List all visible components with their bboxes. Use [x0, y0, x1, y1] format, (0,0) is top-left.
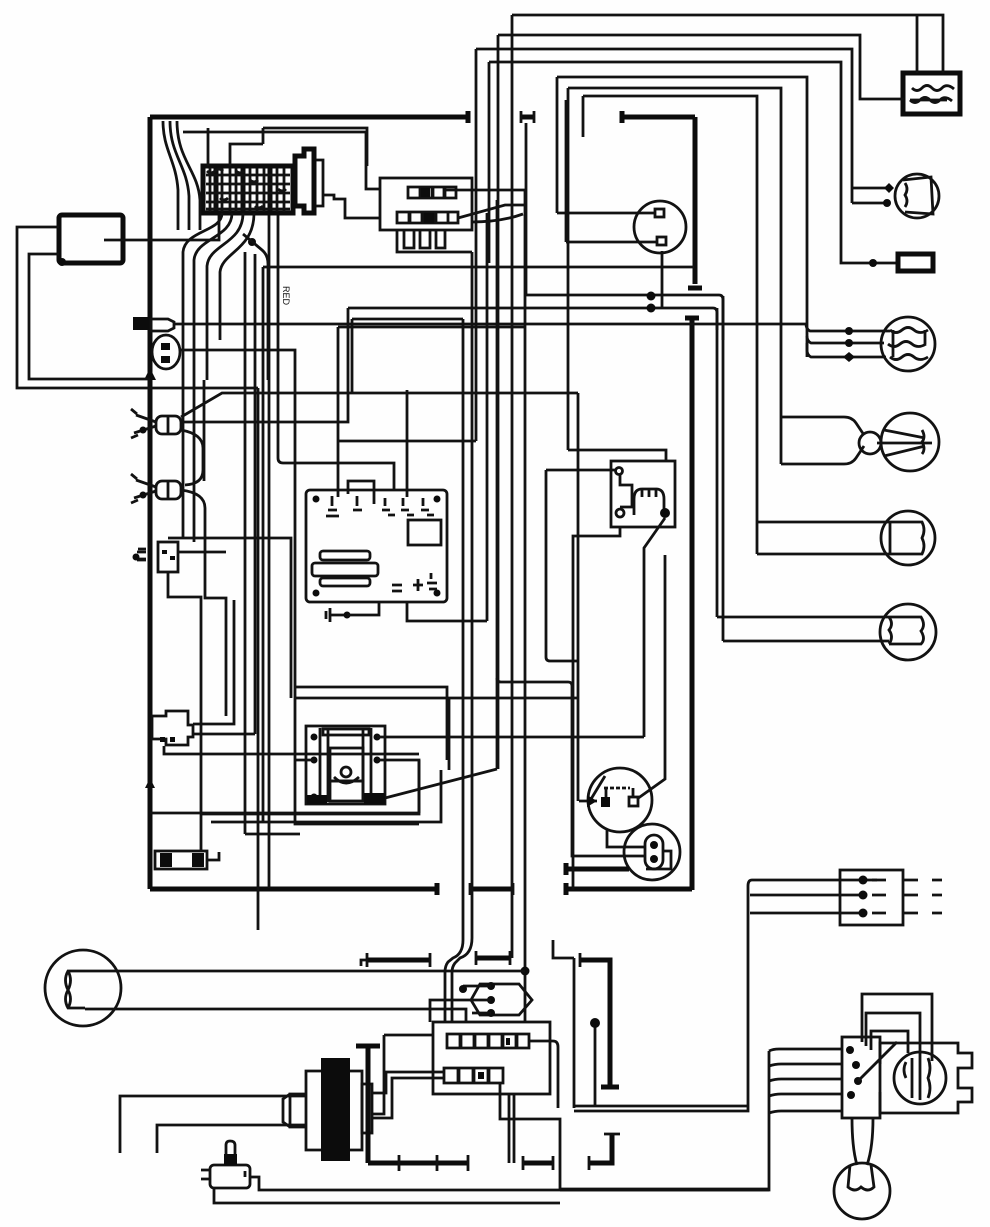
lamp L5 filament	[889, 617, 924, 644]
lamp LL filament	[66, 971, 86, 1008]
terminal dot T1 upper	[884, 183, 894, 193]
MC wire 1	[752, 879, 877, 882]
wire S1 to S2 scurve	[181, 430, 203, 485]
main frame bottom segment 2	[470, 887, 513, 892]
wire loop B top	[568, 88, 781, 464]
CDI unit box	[306, 490, 447, 602]
magneto body left	[306, 1071, 321, 1150]
ground symbol below CDI	[326, 608, 344, 622]
wire magneto top right	[372, 1035, 433, 1114]
coil terminal dots left	[311, 734, 318, 801]
wire LL lower	[85, 1009, 466, 1022]
wire diagonal under fusebox	[243, 234, 268, 380]
fuse holder cap left	[160, 853, 172, 867]
headlamp L3	[881, 413, 939, 471]
relay unit right RR body	[611, 461, 675, 527]
wire flasher top out	[168, 538, 291, 698]
ignition switch pin top	[655, 209, 664, 217]
breaker bracket	[606, 788, 633, 797]
fuse box vertical dividers	[216, 166, 270, 213]
dimmer feed vertical	[560, 1051, 769, 1190]
junction dot resistor wire	[869, 259, 877, 267]
ignition switch pin bottom	[657, 237, 666, 245]
bundle vertical 472	[452, 252, 472, 1022]
relay RR zigzag	[620, 475, 632, 507]
wire bundle vertical 278	[278, 213, 394, 490]
wire fuse holder stub	[207, 852, 219, 860]
coil center body	[330, 748, 363, 781]
wire ignition switch drop	[661, 251, 664, 308]
relay RU pins below	[404, 230, 445, 248]
wire breaker right up	[637, 555, 665, 799]
wire hex top left	[463, 985, 491, 988]
cap at start of bottom segment 3	[564, 883, 569, 895]
main frame bottom segment 1	[150, 887, 437, 892]
wire above dimmer staple1	[862, 994, 932, 1061]
wire bundle vertical 255	[254, 254, 257, 734]
wire relay RR top feed	[568, 450, 666, 461]
terminal dot L2-1	[845, 327, 853, 335]
handlebar switch S2 lever	[131, 474, 156, 503]
magneto connector block MC	[840, 870, 903, 925]
wire flasher bottom	[168, 572, 201, 851]
lamp L4 filament	[890, 522, 924, 554]
tail lamp L4	[881, 511, 935, 565]
thick bottom bus	[368, 1161, 468, 1166]
wire relay top right out	[443, 189, 525, 192]
cap at start of top segment 3	[620, 111, 625, 123]
wire L3 feed lower	[781, 446, 864, 464]
wire horn out right	[259, 1184, 769, 1190]
wire y319 left stub	[351, 319, 354, 392]
horn switch body	[210, 1165, 250, 1188]
wire L2 feed 2	[807, 336, 884, 343]
wire switch box left loop inner	[29, 254, 150, 379]
connector block CN2 body	[152, 711, 193, 745]
flasher left prong blob	[137, 552, 146, 560]
cap at top of right border	[685, 316, 699, 321]
wire CN2 right lower	[193, 733, 255, 736]
wire ammeter line to lamp L2	[174, 323, 806, 326]
L mark caps	[589, 1134, 620, 1170]
MS row1 mark	[506, 1038, 510, 1045]
main harness frame top segment 1	[150, 115, 468, 120]
wire loop A left drop to switch feed	[556, 77, 559, 213]
main frame right border	[690, 318, 695, 890]
wire dimmer to lamp 1	[852, 1118, 857, 1165]
probe dot	[590, 1018, 600, 1028]
condenser pill	[645, 835, 663, 869]
wire relay row2 diagonal	[458, 205, 525, 218]
lamp L6 filament	[848, 1165, 874, 1190]
coil lower body	[330, 781, 363, 801]
wire lamp T1 stub upper	[852, 187, 888, 190]
wire L2 feed 3	[807, 343, 886, 357]
CDI corner screw dots	[313, 496, 441, 597]
wire bundle vertical 194	[193, 380, 196, 542]
dimmer feed branch 3	[769, 1079, 842, 1081]
magneto stator black core	[321, 1058, 350, 1161]
fuse element wavies	[207, 169, 286, 208]
wire MC feed vertical	[574, 880, 752, 1111]
resistor R1	[898, 254, 933, 271]
wire relay RR bottom out	[573, 527, 620, 890]
stop lamp L5	[880, 604, 936, 660]
CDI transformer bar bottom	[320, 578, 370, 586]
cap at bottom of upper right border	[688, 286, 702, 291]
condenser circle CD	[624, 824, 680, 880]
wire MS row2 right down	[500, 1083, 560, 1189]
magneto right plate	[350, 1071, 362, 1150]
wire L5 feed lower	[723, 640, 889, 643]
wire riser x487	[486, 213, 489, 621]
wire bundle vertical 204	[203, 380, 206, 481]
ignition switch box top-left	[59, 215, 123, 263]
wire horizontal y834	[245, 833, 300, 836]
staple bottom cap	[601, 1085, 619, 1090]
T bus vertical	[366, 1046, 371, 1163]
wire battery feed branch	[916, 16, 919, 73]
junction triangle on left border	[144, 368, 156, 380]
handlebar switch S2 divider	[167, 481, 170, 499]
coil corner blob left	[307, 795, 327, 804]
headlamp L3 socket circle	[859, 432, 881, 454]
caps of bottom segment 2	[470, 883, 513, 895]
wire lamp T1 feed	[476, 49, 852, 203]
wire relay RR diagonal out	[644, 518, 665, 737]
MC wire 3	[750, 912, 863, 915]
CDI transformer bar middle	[312, 563, 378, 576]
bundle vertical 497 low	[496, 200, 499, 769]
main frame top segment 2	[521, 115, 534, 120]
wire L4 feed lower	[757, 522, 890, 554]
relay RU row2 dark pin	[424, 213, 434, 223]
wire relay bottom loop	[397, 230, 472, 252]
wire L5 feed upper	[717, 616, 889, 619]
wire magneto right upper pair	[372, 1072, 444, 1093]
terminal dot at switch box bottom	[58, 258, 66, 266]
wire breaker feed from relay RR	[546, 470, 578, 661]
handlebar switch S2 body	[156, 481, 181, 499]
wire from switch box to fuse area	[104, 214, 219, 240]
wire bundle vertical 245	[244, 252, 247, 834]
switch S1 dot	[140, 427, 147, 434]
wire S2 to connector drop	[181, 490, 226, 716]
wire to ignition switch upper	[557, 212, 655, 215]
wire bundle vertical x512	[511, 15, 514, 958]
condenser dots	[650, 841, 658, 863]
fuse box body	[203, 166, 293, 213]
wire y687 over coil	[295, 687, 447, 760]
bundle vertical 525	[524, 190, 527, 1022]
fuse holder FH bottom-left body	[155, 851, 207, 869]
junction triangle on left border lower	[145, 778, 155, 788]
MS row2 mark	[478, 1072, 484, 1079]
wire over fusebox top long	[230, 128, 263, 166]
wire dimmer to lamp 2	[867, 1118, 873, 1165]
turn lamp L2	[881, 317, 935, 371]
oval connector C1	[152, 335, 180, 369]
wire flasher right long	[178, 551, 226, 554]
wire L3 feed upper	[781, 417, 864, 435]
handlebar switch S1 lever	[131, 409, 156, 438]
wire curve top-left 1	[163, 121, 178, 230]
MC wire 2	[750, 894, 863, 897]
wire ground to CDI	[347, 601, 379, 615]
L mark thick	[589, 1134, 612, 1163]
wire curve top-left 3	[177, 121, 200, 230]
wire over fusebox 1	[207, 128, 210, 166]
wire L5 vertical upper	[716, 308, 719, 617]
wire loop A top	[557, 77, 807, 357]
wire bundle vertical x498	[497, 35, 500, 769]
handlebar switch S1 body	[156, 416, 181, 434]
battery B1	[903, 73, 960, 114]
thick bus segment b1	[367, 958, 430, 963]
wire resistor feed	[489, 62, 898, 263]
wire from fusebox bracket to relay	[324, 195, 380, 218]
horn switch button	[224, 1154, 237, 1165]
coil corner blob right	[364, 793, 385, 804]
relay unit RU top body	[380, 178, 472, 230]
staple left cap	[579, 953, 582, 967]
black square terminal on border	[133, 317, 149, 330]
wire relay right out curve	[472, 214, 523, 222]
junction dot under fusebox	[248, 238, 256, 246]
wire to ignition switch lower	[566, 241, 657, 244]
wire y813 left	[150, 812, 419, 815]
CDI pin drop from y441	[337, 327, 340, 497]
wire CDI bottom out	[407, 601, 487, 621]
flasher inner marks	[162, 550, 175, 560]
flasher relay terminal left	[138, 549, 146, 559]
battery element top	[912, 86, 954, 91]
wire battery feed 1	[512, 15, 943, 73]
MS row2 squares	[444, 1068, 503, 1083]
relay RR black dot	[660, 508, 670, 518]
thick bus segment b2	[476, 956, 510, 961]
junction dot 525	[521, 967, 530, 976]
caps of top segment 2	[521, 111, 534, 123]
wire 574 vertical	[553, 940, 574, 1108]
thick staple right	[580, 960, 610, 1087]
wire coil diagonal	[385, 769, 497, 798]
svg-text:RED: RED	[281, 286, 291, 306]
wire lamp T1 stub lower	[852, 202, 888, 205]
wire coil left feed	[295, 759, 314, 762]
coil enclosure box	[295, 698, 578, 824]
wire y308 to lamp L5	[348, 308, 717, 330]
dimmer dots	[846, 1046, 862, 1099]
bottom bus ticks	[399, 1155, 468, 1171]
CDI transformer bar top	[320, 551, 370, 560]
coil right rail	[363, 728, 371, 802]
wire loop C top	[583, 96, 757, 554]
wire from oval connector	[180, 350, 295, 687]
wire above dimmer staple2	[866, 1013, 920, 1056]
CDI bottom pin marks	[392, 573, 437, 591]
wire bundle vertical x489	[488, 62, 491, 263]
dimmer switch body	[842, 1037, 880, 1118]
MS row1 squares	[447, 1034, 529, 1048]
MS bottom pins	[509, 1094, 514, 1163]
coil center cap circle	[341, 767, 351, 777]
wire CN2 bottom loop	[164, 746, 419, 754]
main switch block MS body	[433, 1022, 550, 1094]
contact breaker circle CB	[588, 768, 652, 832]
MC dot 1	[859, 876, 868, 885]
bus b1 caps	[361, 953, 430, 967]
dimmer feed branch 5	[769, 1111, 842, 1113]
headlamp bulb filaments	[904, 1056, 930, 1100]
wire L4 feed upper	[757, 521, 890, 524]
fuse box right bracket inner	[316, 160, 323, 206]
terminal dot L2-3	[843, 352, 855, 362]
relay RR coil comb	[634, 489, 664, 515]
wire lower switch riser	[565, 100, 568, 242]
battery element bottom	[910, 98, 952, 103]
relay RU row1 squares	[408, 187, 456, 198]
wire S1 right to CDI riser	[181, 308, 348, 422]
wire fan below fusebox 4	[220, 213, 254, 340]
thick stub under condenser	[566, 867, 629, 872]
coil top bar	[323, 729, 369, 735]
dimmer feed branch 2	[769, 1064, 842, 1066]
pilot lamp T1	[895, 174, 939, 218]
relay RR terminal bottom circle	[616, 509, 624, 517]
bus right caps	[523, 1156, 553, 1170]
MC dot 3	[859, 909, 868, 918]
wire bottom long to dimmer riser	[560, 1188, 769, 1191]
wire above dimmer staple3	[871, 1031, 908, 1053]
wire breaker bottom to condenser	[607, 830, 646, 847]
wire points feed riser	[577, 393, 580, 801]
CDI inner component square	[408, 520, 441, 545]
dimmer feed branch 4	[769, 1094, 842, 1096]
wire LL upper	[85, 970, 525, 973]
main frame top segment 3	[622, 115, 695, 120]
headlamp L3 filament	[877, 430, 932, 456]
ground dot	[344, 612, 351, 619]
wire battery feed 2	[498, 35, 904, 99]
wire over fusebox 2	[263, 128, 367, 166]
wire loop B left drop	[567, 88, 570, 450]
lamp L2 filament	[888, 328, 928, 360]
connector CN2 pins	[160, 737, 175, 742]
wire bundle vertical 183	[182, 380, 185, 538]
horn switch left terminals	[201, 1170, 210, 1179]
coil left rail	[320, 728, 328, 802]
headlamp LL bottom-left	[45, 950, 121, 1026]
relay RU row1 dark pin	[421, 188, 430, 197]
coil terminal dots right	[374, 734, 381, 801]
CDI pin drop x407	[406, 390, 409, 497]
terminal dot L2-2	[845, 339, 853, 347]
breaker left terminal	[601, 797, 610, 807]
wire magneto left upper	[120, 1096, 306, 1153]
ignition coil assembly outer	[306, 726, 385, 804]
probe vertical with dot	[594, 1026, 597, 1105]
horn switch right terminal	[245, 1171, 259, 1184]
relay RU row2 squares	[397, 212, 458, 223]
wire relay RR left feed	[546, 469, 615, 472]
relay RR terminal top circle	[616, 468, 623, 475]
breaker right terminal	[629, 797, 638, 806]
lamp L2 inner posts	[893, 330, 925, 357]
fuse box right bracket outer	[295, 149, 314, 213]
fuse holder cap right	[192, 853, 204, 867]
wire fan below fusebox 2	[194, 213, 232, 380]
magneto side bar	[362, 1084, 372, 1133]
wire loop C left drop	[582, 96, 585, 137]
bottom lamp L6	[834, 1163, 890, 1219]
condenser side bracket	[646, 851, 671, 869]
wire curve top-left 2	[170, 121, 189, 230]
wire condenser feed from bundle	[497, 678, 645, 856]
CDI jumper staple	[348, 481, 374, 504]
bus b2 caps	[476, 951, 510, 965]
wire switch box left loop outer	[17, 227, 258, 388]
wire horizontal y822	[211, 770, 441, 822]
MC dashed outputs	[872, 880, 942, 913]
wire MS row1 right out	[529, 1041, 558, 1108]
wire magneto left lower	[157, 1125, 306, 1153]
wire horizontal y814	[201, 760, 419, 814]
cap at end of bottom segment 1	[435, 883, 440, 895]
fuse elements row marks	[206, 175, 290, 209]
wire y687 left drop	[294, 687, 297, 698]
wire bus drop x258	[257, 388, 260, 930]
bundle vertical 463	[445, 319, 463, 1022]
CDI top pin marks	[326, 496, 434, 516]
headlamp housing bracket	[880, 1043, 972, 1113]
wire coil right feed upper	[377, 736, 644, 739]
main harness frame left border	[148, 117, 153, 889]
wire coil right mid out	[377, 760, 419, 813]
wire into breaker left	[579, 800, 597, 803]
hex connector CN3	[471, 984, 532, 1015]
wire y1108 horizontal	[574, 1105, 748, 1108]
wire hex bottom left	[472, 1012, 491, 1015]
coil center smile arc	[334, 777, 359, 783]
dimmer feed branch 1	[769, 1049, 842, 1051]
breaker arrow head	[587, 795, 597, 807]
thick bus right segment	[523, 1161, 553, 1166]
wire bundle vertical 269	[268, 213, 271, 888]
main frame right border upper	[693, 117, 698, 284]
wire L2 feed 1 from ammeter line	[806, 324, 890, 331]
hex connector dots	[487, 982, 495, 1017]
cap on stub	[564, 863, 569, 875]
breaker diagonal arm	[588, 776, 605, 804]
ignition switch circle SW	[634, 201, 686, 253]
wire mid horizontal y267	[263, 266, 694, 269]
wire fan below fusebox 1	[183, 213, 222, 380]
wire bundle vertical x476	[475, 49, 478, 441]
wire hex mid left	[430, 1000, 491, 1022]
wire bundle vertical 262	[262, 267, 265, 822]
oval connector pin upper	[161, 343, 170, 350]
wire y296 riser from frame	[525, 123, 528, 295]
wire fan below fusebox 3	[207, 213, 243, 380]
wire S1 diagonal up	[181, 393, 578, 417]
headlamp bulb circle	[894, 1052, 946, 1104]
CDI feed riser y441	[338, 440, 476, 443]
flasher relay F1 body	[158, 542, 178, 572]
junction dot y296	[647, 292, 656, 301]
wire mid horizontal y319	[352, 318, 463, 321]
fuse clips hatch	[210, 168, 284, 212]
